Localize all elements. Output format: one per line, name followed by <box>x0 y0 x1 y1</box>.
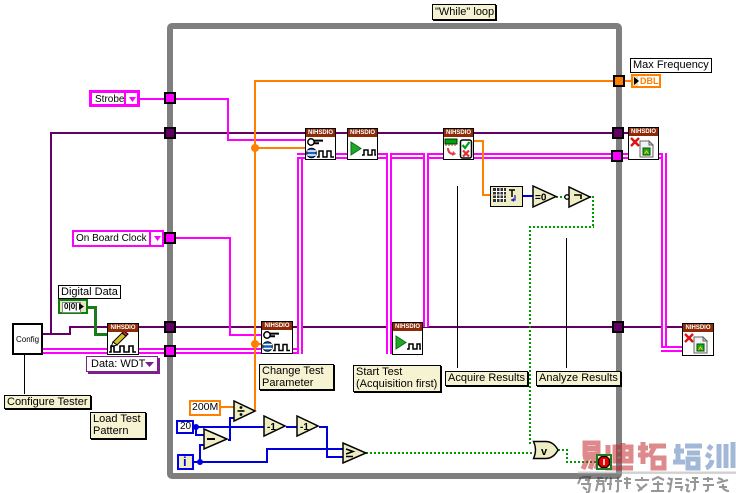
VI: Config (Configure Tester subVI) <box>12 323 43 355</box>
watermark: line 2 gray slogan <box>578 477 729 492</box>
wire: blue 20 to decrement <box>194 426 264 428</box>
VI: niHSDIO Initiate (Start Test) <box>392 322 423 355</box>
wire: session top bus <box>297 153 613 159</box>
constant: 200M <box>189 400 221 416</box>
wire: session vertical B <box>386 153 392 354</box>
function: subtract <box>203 428 229 451</box>
tunnel: session left <box>164 345 176 357</box>
wire: error cluster upper bus horizontal to left tunnel <box>50 132 166 134</box>
indicator: Max Frequency DBL <box>631 74 661 88</box>
label: Digital Data <box>58 285 121 299</box>
wire: session vertical A <box>297 153 303 354</box>
VI: niHSDIO Close (bottom right, outside loop) <box>682 323 714 356</box>
constant: 20 <box>176 420 194 434</box>
svg-text:=0: =0 <box>535 193 547 204</box>
label: Change Test Parameter <box>259 364 334 390</box>
label connector line from Config <box>24 355 25 394</box>
wire: green dotted long vertical to Or <box>529 226 531 446</box>
wire: orange from tunnel to DBL indicator <box>624 80 631 82</box>
control: On Board Clock ring constant <box>72 230 164 247</box>
control: Strobe ring constant <box>89 90 140 107</box>
node: digital pattern convert icon <box>490 186 523 207</box>
label connector line Analyze Results <box>566 238 567 368</box>
wire: digital data green vertical <box>94 306 97 335</box>
function: not <box>564 186 592 209</box>
wire: blue decrement1 to decrement2 <box>286 426 297 428</box>
label connector line Acquire Results <box>457 186 458 368</box>
wire: On Board Clock to Change Test VI <box>229 334 261 336</box>
tunnel: error upper right <box>612 127 624 139</box>
wire: orange vertical to convert icon <box>482 140 484 196</box>
label: Configure Tester <box>4 395 91 409</box>
constant: digital waveform data <box>58 299 88 314</box>
wire: blue decrement2 out <box>319 426 328 428</box>
wire: error upper bus inside loop <box>176 132 613 134</box>
while loop frame <box>167 23 622 479</box>
watermark: yiditop logo line 1 <box>575 436 736 493</box>
junction: blue dot at i <box>197 459 203 465</box>
function: decrement 2 <box>296 415 320 438</box>
tunnel: error lower right <box>612 321 624 333</box>
terminal: loop iteration i <box>177 454 194 470</box>
wire: Strobe inside loop horizontal <box>176 98 229 100</box>
VI: niHSDIO Close (top right, outside loop) <box>628 127 659 160</box>
svg-text:v: v <box>541 446 548 458</box>
label: "While" loop <box>432 4 496 20</box>
wire: Strobe to left tunnel <box>140 98 166 100</box>
wire: blue i to comparison run <box>199 461 268 463</box>
svg-text:-1: -1 <box>300 422 309 433</box>
wire: error lower bus inside loop <box>176 326 613 328</box>
function: greater or equal <box>342 442 368 465</box>
wire: session bus inside loop to Change Test VI <box>176 348 262 354</box>
wire: orange into convert icon <box>482 194 490 196</box>
tunnel: Max Frequency orange right <box>613 75 625 87</box>
wire: session vertical C <box>423 153 429 327</box>
wire: green dotted comparison out to Or <box>366 452 533 454</box>
VI: niHSDIO Write Named Waveform (outside loop) <box>107 323 139 355</box>
label: Analyze Results <box>536 371 621 386</box>
wire: Strobe vertical drop <box>227 98 229 141</box>
wire: On Board Clock inside loop horizontal <box>176 237 231 239</box>
wire: fetch VI orange out <box>474 140 484 142</box>
wire: digital data green into write VI <box>94 333 107 336</box>
function: divide <box>233 400 257 423</box>
wire: session stub right of Change Test VI <box>293 348 303 354</box>
tunnel: error lower left <box>164 321 176 333</box>
wire: On Board Clock vertical drop <box>229 237 231 335</box>
wire: session right of loop to corner <box>622 153 667 159</box>
tunnel: error upper left <box>164 127 176 139</box>
wire: Config error out horizontal <box>43 333 71 335</box>
tunnel: Strobe left <box>164 92 176 104</box>
wire: session into bottom close VI <box>661 346 682 352</box>
wire: blue convert to equal-zero <box>523 195 533 197</box>
wire: green dotted horizontal back left <box>529 226 594 228</box>
wire: 200M to divide <box>221 406 234 408</box>
VI: niHSDIO Configure Sample Clock (top row) <box>305 128 336 160</box>
junction: orange dot top <box>251 144 259 152</box>
svg-text:-1: -1 <box>267 422 276 433</box>
wire: digital data green out <box>88 306 96 309</box>
wire: blue up to subtract bottom input <box>199 445 201 461</box>
wire: Strobe to Configure Clock VI <box>227 139 305 141</box>
wire: Config error step up <box>69 326 71 335</box>
junction: blue dot at 20 <box>193 424 199 430</box>
wire: error upper bus to top close VI <box>622 132 629 134</box>
wire: green dotted equal-zero to not <box>556 196 566 198</box>
function: equal to zero <box>532 185 558 209</box>
wire: sample clock frequency orange vertical <box>254 81 256 411</box>
tunnel: On Board Clock left <box>164 232 176 244</box>
junction: orange dot bottom <box>251 340 259 348</box>
wire: orange branch to bottom Configure Clock VI <box>254 343 261 345</box>
label: Max Frequency <box>630 58 712 73</box>
wire: green dotted Or out <box>558 449 568 451</box>
wire: green dotted not out <box>589 196 594 198</box>
wire: error lower bus to bottom close VI <box>622 326 682 328</box>
label: Load Test Pattern <box>90 412 146 439</box>
wire: error to write VI and left tunnel <box>70 326 166 328</box>
VI: niHSDIO Initiate (top row) <box>347 128 378 160</box>
label: Acquire Results <box>445 371 528 386</box>
watermark underline <box>578 472 736 474</box>
wire: On Board Clock to left tunnel <box>164 237 166 239</box>
terminal: loop condition (stop) <box>596 454 612 470</box>
VI: niHSDIO Configure Sample Clock (Change Test Parameter) <box>261 321 293 354</box>
VI: niHSDIO Fetch Waveform / HWC (top row) <box>443 128 474 160</box>
wire: session right vertical down <box>661 153 667 352</box>
wire: orange top horizontal to right tunnel <box>254 80 616 82</box>
tunnel: session right <box>611 150 623 162</box>
label: Start Test (Acquisition first) <box>353 365 441 392</box>
function: decrement 1 <box>263 415 287 438</box>
wire: session thick bus from Config to left tunnel <box>43 348 166 354</box>
wire: blue drop to subtract top input <box>195 426 197 436</box>
constant: Data: WDT enum <box>86 356 158 372</box>
wire: green dotted vertical down from not <box>592 196 594 228</box>
wire: blue subtract out up to divide <box>228 439 231 441</box>
wire: orange branch to top Configure Clock VI <box>254 147 305 149</box>
wire: error cluster upper bus (outside left, vertical from Config) <box>50 132 52 335</box>
function: or <box>532 440 560 461</box>
wire: blue i out <box>194 461 202 463</box>
